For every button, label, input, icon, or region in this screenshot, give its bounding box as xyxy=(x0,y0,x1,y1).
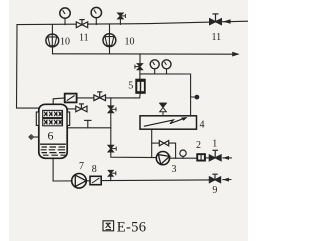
wire: branch x140 valve to rotameter xyxy=(139,70,141,79)
wire: suction manifold to right arrow xyxy=(53,53,233,55)
gauge PG5 at pump3 discharge xyxy=(180,150,186,156)
valve 9 (bowtie with T-stem) xyxy=(209,174,220,182)
thermowell T on vessel right line xyxy=(87,120,89,127)
gauge PG1 xyxy=(60,8,70,18)
svg-text:8: 8 xyxy=(92,164,97,175)
wire: branch x140 upper xyxy=(139,54,141,64)
wire: gauge PG5 stub xyxy=(182,156,184,158)
hand-drawn CJK glyph "图" xyxy=(103,221,114,231)
svg-text:6: 6 xyxy=(48,129,54,143)
vessel left ear xyxy=(36,112,39,125)
wire: pump10a top stub xyxy=(51,25,53,35)
pump 3 xyxy=(156,152,169,165)
filter 8 (rect with diagonal) xyxy=(90,176,101,184)
vessel left sample valve (small diamond) xyxy=(29,135,34,140)
valve 1 (bowtie with T-stem) xyxy=(209,150,221,161)
liquid in vessel bottom xyxy=(40,144,66,155)
pump 10a xyxy=(46,34,59,47)
valve 11a (top-left bowtie with T-stem) xyxy=(76,20,87,28)
packing rows inside vessel xyxy=(43,110,63,125)
wire: line above vessel xyxy=(77,97,136,99)
wire: gauge PG1 stub xyxy=(64,18,66,24)
bypass valve (plain bowtie) xyxy=(159,141,168,146)
hourglass valve upper on x110.8 (stem right) xyxy=(108,106,116,113)
valve above vessel (bowtie with T-stem) xyxy=(94,92,106,101)
svg-text:E-56: E-56 xyxy=(117,219,147,235)
wire: small valve stub above bottom line xyxy=(110,176,112,180)
arrow at valve1 (points left) xyxy=(223,156,229,160)
valve on vessel right nozzle (bowtie with T-stem) xyxy=(76,104,87,112)
wire: gauge PG3 stub xyxy=(154,69,156,74)
valve on branch x140 (hourglass, stem left) xyxy=(135,64,143,70)
wire: pump3 discharge xyxy=(170,157,197,159)
wire: vessel right line xyxy=(67,127,111,129)
svg-text:11: 11 xyxy=(212,32,222,43)
wire: vessel bottom stub xyxy=(52,158,54,181)
wire: vessel right nozzle to valve xyxy=(67,108,76,110)
heater 4 (rect with zigzag arrow) xyxy=(140,116,197,129)
pump 7 xyxy=(72,174,87,189)
svg-text:11: 11 xyxy=(79,33,89,44)
wire: left vertical drop to vessel xyxy=(17,25,39,109)
wire: vertical x110.8 xyxy=(111,98,157,158)
arrow into valve 11b (points left) xyxy=(223,19,231,24)
valve 11b (top-right bowtie with T-stem) xyxy=(210,14,222,25)
hourglass valve lower on x110.8 (stem right) xyxy=(108,145,116,152)
wire: pump10a bottom stub xyxy=(52,47,54,54)
svg-text:3: 3 xyxy=(172,164,177,175)
wire: vessel left sample nozzle xyxy=(33,136,38,138)
wire: top manifold line xyxy=(17,21,248,24)
wire: gauge manifold and down to heater xyxy=(140,74,191,116)
wire: gauge PG4 stub xyxy=(166,69,168,74)
wire: valve9 arrow tail xyxy=(223,179,231,181)
wire: pump10b top stub xyxy=(109,24,111,34)
wire: gauge PG2 stub xyxy=(95,18,97,25)
wire: rotameter bottom bend to line above vessel xyxy=(135,94,140,98)
wire: pump10b bottom stub xyxy=(109,47,111,54)
wire: valve1 arrow tail xyxy=(223,157,232,159)
wire: comp2 to valve1 xyxy=(206,157,210,159)
svg-text:10: 10 xyxy=(60,37,70,48)
wire: bottom line xyxy=(53,180,90,182)
arrow at valve9 (points left) xyxy=(223,178,229,182)
flow meter 2 (square with center bar) xyxy=(196,153,206,161)
wire: bypass around pump3 xyxy=(152,142,160,144)
svg-text:5: 5 xyxy=(128,81,133,92)
vent/safety on heater top xyxy=(160,103,167,116)
svg-text:1: 1 xyxy=(212,139,217,150)
caption 图 E-56 xyxy=(103,219,146,235)
gauge PG2 xyxy=(91,7,101,17)
paper background xyxy=(0,0,248,241)
svg-text:4: 4 xyxy=(200,119,205,130)
svg-text:9: 9 xyxy=(212,185,217,196)
gauge PG3 xyxy=(150,60,159,69)
vessel right ear xyxy=(67,112,70,125)
arrow right end of suction manifold (points right) xyxy=(232,52,240,57)
gauge PG4 xyxy=(162,60,171,69)
wire: thermometer stub on downcomer xyxy=(191,96,195,98)
flame arrester (rect with diagonal) on line above vessel xyxy=(65,94,77,103)
svg-text:2: 2 xyxy=(196,140,201,151)
wire: vent valve stub top line xyxy=(119,19,121,25)
svg-text:7: 7 xyxy=(79,161,84,172)
thermometer dot on heater downcomer xyxy=(195,95,200,100)
wire: vessel top stub xyxy=(53,98,64,104)
pump 10b xyxy=(103,34,116,47)
rotameter 5 xyxy=(135,79,145,94)
vent valve at top (hourglass, stem right) xyxy=(118,13,126,19)
vessel 6 body xyxy=(36,104,69,158)
small hourglass valve after filter 8 (stem right) xyxy=(108,170,116,176)
svg-text:10: 10 xyxy=(125,37,135,48)
wire: heater outlet down xyxy=(151,129,153,157)
